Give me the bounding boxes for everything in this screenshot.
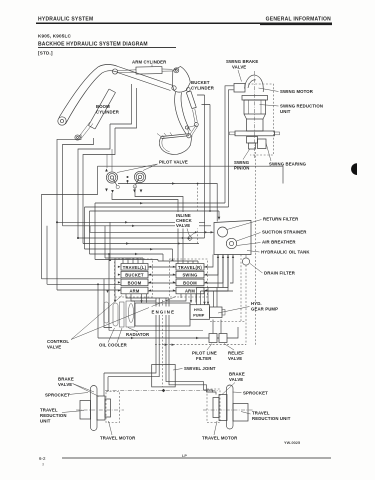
- svg-text:HYDRAULIC SYSTEM: HYDRAULIC SYSTEM: [38, 17, 93, 23]
- wire oil cooler feeds: [97, 253, 116, 338]
- wire rows upper bundle: [56, 221, 214, 261]
- svg-text:AIR BREATHER: AIR BREATHER: [262, 240, 296, 245]
- svg-text:BOOM: BOOM: [96, 104, 110, 109]
- swing unit dashed enclosure: [248, 84, 274, 155]
- engine: [109, 303, 203, 331]
- wire bundle valve to bottom: [126, 294, 186, 365]
- svg-text:YW-0025: YW-0025: [284, 441, 300, 445]
- control valve left bank: [121, 264, 148, 294]
- wire left margin verticals: [42, 221, 122, 290]
- wire swivel to right motor: [175, 382, 216, 395]
- svg-text:UNIT: UNIT: [40, 419, 51, 424]
- svg-text:PILOT VALVE: PILOT VALVE: [159, 160, 188, 165]
- right sprocket: [227, 385, 234, 429]
- svg-text:SWING: SWING: [182, 273, 197, 278]
- label TRAVEL MOTOR left: [100, 421, 136, 441]
- svg-text:SPROCKET: SPROCKET: [45, 393, 70, 398]
- control valve right bank: [176, 264, 204, 294]
- svg-text:[STD.]: [STD.]: [38, 51, 53, 56]
- swing motor dome: [245, 75, 264, 92]
- svg-text:VALVE: VALVE: [47, 345, 61, 350]
- svg-text:BOOM: BOOM: [183, 280, 197, 285]
- swing bearing base plate: [230, 131, 280, 136]
- left travel reduction unit: [80, 401, 91, 420]
- right travel reduction unit: [233, 404, 248, 422]
- title: model numbers: [38, 34, 72, 39]
- svg-text:VALVE: VALVE: [58, 382, 72, 387]
- svg-text:6-2: 6-2: [39, 456, 46, 461]
- wire: pilot supply line: [98, 149, 284, 184]
- wire: pilot frame left: [42, 166, 98, 221]
- label BOOM CYLINDER: [96, 104, 120, 115]
- left travel motor: [97, 396, 111, 420]
- label SWING REDUCTION UNIT: [260, 104, 324, 115]
- label PILOT VALVE: [117, 160, 188, 173]
- svg-text:TRAVEL(L): TRAVEL(L): [123, 265, 147, 270]
- pilot valve right: [133, 171, 145, 188]
- travel axis centerline: [105, 389, 218, 393]
- bucket cylinder: [186, 88, 198, 127]
- label SPROCKET right: [233, 391, 269, 396]
- label PILOT LINE FILTER: [192, 344, 217, 362]
- swing unit centerline: [254, 71, 256, 158]
- svg-text:ARM CYLINDER: ARM CYLINDER: [132, 60, 167, 65]
- svg-text:OIL COOLER: OIL COOLER: [99, 343, 128, 348]
- svg-text:RELIEF: RELIEF: [228, 351, 244, 356]
- pilot valve left: [106, 172, 119, 189]
- label HYDRAULIC OIL TANK: [247, 250, 310, 255]
- svg-text:LP: LP: [182, 454, 187, 458]
- tank return arrows: [217, 255, 234, 258]
- svg-text:VALVE: VALVE: [176, 223, 190, 228]
- svg-text:TRAVEL MOTOR: TRAVEL MOTOR: [100, 436, 136, 441]
- svg-text:CONTROL: CONTROL: [47, 339, 69, 344]
- wire: pilot lower row: [112, 187, 183, 262]
- wire main low pressure line: [98, 320, 238, 340]
- pilot line filter box: [209, 334, 217, 343]
- svg-text:SWING REDUCTION: SWING REDUCTION: [280, 104, 323, 109]
- svg-text:SWING MOTOR: SWING MOTOR: [280, 89, 314, 94]
- header rule: [36, 23, 332, 24]
- svg-text:VALVE: VALVE: [228, 356, 242, 361]
- label RETURN FILTER: [227, 217, 299, 230]
- label BUCKET CYLINDER: [191, 80, 215, 91]
- arm cylinder: [112, 67, 172, 75]
- label ARM CYLINDER: [132, 60, 167, 67]
- svg-text:3: 3: [42, 463, 44, 467]
- label BRAKE VALVE left: [58, 377, 99, 397]
- svg-text:VALVE: VALVE: [229, 377, 243, 382]
- header right: GENERAL INFORMATION: [266, 17, 332, 23]
- control valve dashed enclosures: [115, 259, 208, 297]
- title: STD: [38, 51, 53, 56]
- wire verticals into right bank: [158, 261, 198, 264]
- svg-text:SWING: SWING: [234, 160, 250, 165]
- svg-text:UNIT: UNIT: [280, 109, 291, 114]
- wire rows below banks: [148, 255, 228, 292]
- svg-text:BOOM: BOOM: [128, 280, 142, 285]
- wire pilot drain dashed: [197, 184, 199, 244]
- svg-text:PILOT LINE: PILOT LINE: [192, 351, 217, 356]
- dipper head: [172, 67, 191, 93]
- inline check valve: [175, 212, 199, 241]
- label SUCTION STRAINER: [237, 230, 308, 242]
- svg-text:HYD.: HYD.: [251, 301, 262, 306]
- wire drain dashed: [155, 152, 256, 346]
- label SWING BEARING: [266, 143, 307, 167]
- swing motor body: [242, 96, 268, 132]
- svg-text:PUMP: PUMP: [193, 314, 205, 318]
- wires into engine top: [140, 294, 196, 303]
- wire: bucket cyl hose stubs: [197, 95, 210, 105]
- svg-text:BRAKE: BRAKE: [229, 372, 245, 377]
- label AIR BREATHER: [237, 240, 296, 246]
- svg-text:HYDRAULIC OIL TANK: HYDRAULIC OIL TANK: [261, 250, 310, 255]
- svg-text:BRAKE: BRAKE: [58, 377, 74, 382]
- swing brake valve label: [226, 59, 258, 82]
- label OIL COOLER: [99, 328, 128, 348]
- swing pinion parts: [247, 137, 267, 150]
- hyd pump: [190, 305, 210, 320]
- svg-text:CYLINDER: CYLINDER: [96, 110, 120, 115]
- label TRAVEL MOTOR right: [202, 421, 238, 441]
- wire: pilot output row: [118, 181, 217, 222]
- boom: [59, 65, 173, 125]
- wire tank to pump: [197, 255, 234, 308]
- relief valve box: [219, 334, 227, 343]
- svg-text:REDUCTION: REDUCTION: [40, 413, 67, 418]
- label RELIEF VALVE: [224, 344, 244, 362]
- boom cylinder: [75, 89, 116, 140]
- engine label: [149, 307, 177, 316]
- label TRAVEL REDUCTION UNIT right: [241, 411, 291, 422]
- svg-text:TRAVEL: TRAVEL: [40, 408, 58, 413]
- label CONTROL VALVE: [47, 296, 176, 350]
- svg-text:SWING BRAKE: SWING BRAKE: [226, 59, 258, 64]
- svg-text:REDUCTION UNIT: REDUCTION UNIT: [252, 416, 291, 421]
- right brake valve dashed box: [207, 389, 220, 423]
- header left: HYDRAULIC SYSTEM: [38, 17, 93, 23]
- svg-text:TRAVEL MOTOR: TRAVEL MOTOR: [202, 436, 238, 441]
- swivel joint: [152, 365, 176, 387]
- svg-text:GEAR PUMP: GEAR PUMP: [251, 307, 278, 312]
- wire rows swing feed: [85, 202, 229, 260]
- wire: boom cyl hoses: [57, 124, 115, 290]
- right travel motor: [213, 395, 227, 421]
- svg-text:HYD.: HYD.: [194, 308, 203, 312]
- svg-text:SWIVEL JOINT: SWIVEL JOINT: [184, 366, 216, 371]
- drain filter: [242, 255, 249, 266]
- swing brake valve block: [234, 84, 245, 93]
- right motor centerline: [203, 409, 253, 411]
- label DRAIN FILTER: [250, 264, 296, 276]
- pilot valve arrows: [105, 169, 142, 194]
- binder hole mark: [351, 163, 357, 175]
- label SWING MOTOR: [259, 88, 314, 94]
- label SPROCKET left: [45, 393, 88, 398]
- svg-text:GENERAL INFORMATION: GENERAL INFORMATION: [266, 17, 332, 23]
- return filter: [218, 227, 228, 237]
- footer rule: [39, 454, 331, 467]
- pipe from brake valve: [225, 86, 234, 207]
- svg-text:VALVE: VALVE: [232, 65, 246, 70]
- svg-text:TRAVEL: TRAVEL: [252, 411, 270, 416]
- radiator and oil cooler elements: [104, 301, 135, 327]
- left sprocket: [91, 386, 98, 431]
- svg-text:K905, K905LC: K905, K905LC: [38, 34, 72, 39]
- svg-text:ARM: ARM: [185, 289, 195, 294]
- svg-text:FILTER: FILTER: [196, 356, 212, 361]
- left brake valve dashed box: [106, 392, 120, 423]
- svg-text:SUCTION STRAINER: SUCTION STRAINER: [262, 230, 307, 235]
- svg-text:SWING BEARING: SWING BEARING: [269, 162, 307, 167]
- wire verticals into left bank: [105, 222, 143, 263]
- label RADIATOR: [126, 328, 150, 337]
- svg-text:DRAIN FILTER: DRAIN FILTER: [264, 271, 296, 276]
- left bank spool arrows: [118, 266, 151, 292]
- svg-text:ENGINE: ENGINE: [152, 310, 176, 315]
- bucket linkage: [185, 125, 197, 137]
- svg-text:RETURN FILTER: RETURN FILTER: [263, 217, 299, 222]
- dipper arm: [175, 92, 191, 138]
- boom foot pivot: [58, 117, 66, 125]
- wire into left motor: [104, 373, 108, 396]
- label SWING PINION: [234, 149, 250, 171]
- wire: arm cyl hoses: [110, 84, 210, 238]
- svg-text:BACKHOE HYDRAULIC SYSTEM DI: BACKHOE HYDRAULIC SYSTEM DIAGRAM: [38, 42, 148, 48]
- svg-text:SPROCKET: SPROCKET: [243, 391, 268, 396]
- svg-text:BUCKET: BUCKET: [125, 273, 144, 278]
- svg-text:BUCKET: BUCKET: [191, 80, 210, 85]
- label TRAVEL REDUCTION UNIT left: [40, 408, 84, 424]
- svg-text:TRAVEL(R): TRAVEL(R): [178, 265, 202, 270]
- label HYD GEAR PUMP: [218, 301, 278, 313]
- label SWIVEL JOINT: [173, 366, 216, 371]
- wire swivel to left motor: [104, 373, 152, 377]
- label BRAKE VALVE right: [222, 372, 245, 395]
- hydraulic oil tank: [214, 221, 251, 255]
- svg-text:RADIATOR: RADIATOR: [126, 332, 150, 337]
- title: diagram name underlined: [38, 42, 176, 48]
- svg-text:ARM: ARM: [129, 289, 139, 294]
- hyd gear pump: [210, 307, 226, 318]
- right bank spool arrows: [173, 266, 207, 292]
- suction strainer: [226, 238, 236, 248]
- bucket: [157, 132, 192, 154]
- svg-text:CYLINDER: CYLINDER: [191, 86, 215, 91]
- figure number: [284, 441, 300, 445]
- left motor centerline: [76, 409, 124, 411]
